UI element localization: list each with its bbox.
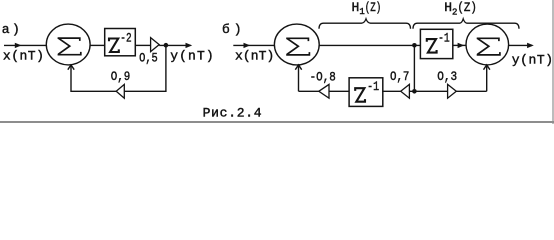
svg-text:-O,8: -O,8 — [310, 69, 336, 84]
svg-text:y(nT): y(nT) — [170, 48, 214, 63]
svg-text:O,9: O,9 — [111, 69, 131, 84]
svg-text:H1(Z): H1(Z) — [352, 0, 382, 17]
svg-text:O,5: O,5 — [139, 51, 158, 66]
svg-text:-2: -2 — [120, 31, 131, 46]
svg-text:-1: -1 — [367, 79, 379, 94]
svg-text:H2(Z): H2(Z) — [444, 0, 477, 18]
svg-text:y(nT): y(nT) — [512, 52, 553, 67]
svg-text:O,7: O,7 — [390, 69, 409, 84]
svg-text:-1: -1 — [438, 30, 450, 45]
svg-text:x(nT): x(nT) — [3, 49, 44, 64]
svg-text:x(nT): x(nT) — [235, 49, 274, 64]
svg-text:O,3: O,3 — [437, 69, 457, 84]
svg-text:Рис.2.4: Рис.2.4 — [203, 106, 262, 121]
